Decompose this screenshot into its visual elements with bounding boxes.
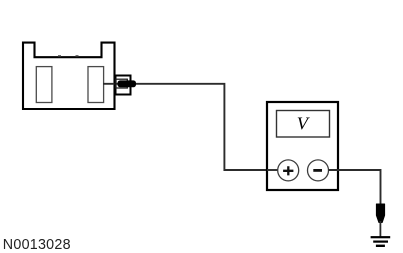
- minus terminal circle: [308, 160, 329, 181]
- minus sign: [313, 169, 322, 172]
- svg-text:N0013028: N0013028: [3, 237, 71, 253]
- latch tick 2: [76, 55, 79, 57]
- plus terminal circle: [278, 160, 299, 181]
- connector housing outline: [23, 43, 115, 109]
- wire into plus terminal: [267, 169, 278, 171]
- probe contact blob: [118, 80, 137, 87]
- wire from terminal to corner: [103, 84, 268, 170]
- svg-text:V: V: [297, 114, 310, 134]
- probe body at connector: [116, 76, 131, 95]
- wire to ground: [379, 221, 381, 237]
- ground bar 1: [371, 236, 391, 238]
- probe tip: [376, 204, 384, 223]
- probe inner bracket: [116, 79, 127, 88]
- voltmeter body: [267, 102, 338, 190]
- terminal cavity right: [88, 67, 104, 103]
- ground bar 2: [373, 241, 388, 243]
- voltmeter display window: [277, 111, 330, 138]
- ground bar 3: [376, 245, 385, 247]
- wire from minus terminal to ground drop: [328, 170, 380, 204]
- plus sign: [283, 166, 293, 175]
- latch tick 1: [58, 55, 61, 57]
- terminal cavity left: [36, 67, 52, 103]
